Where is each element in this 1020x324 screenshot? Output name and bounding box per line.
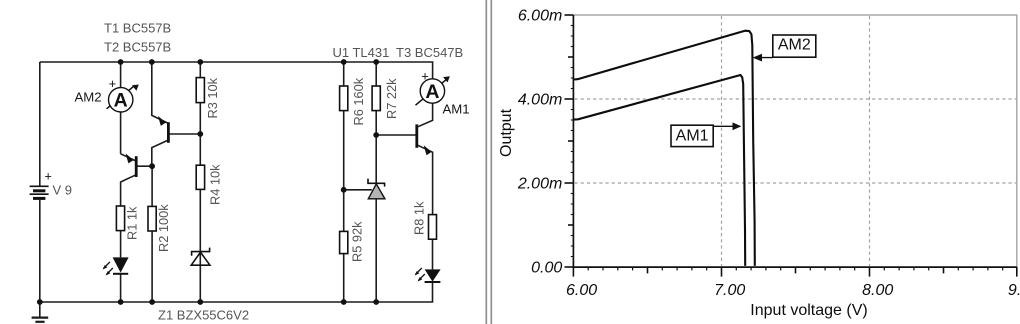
svg-text:Input voltage (V): Input voltage (V): [750, 302, 867, 319]
svg-text:+: +: [421, 69, 429, 84]
svg-text:9.00: 9.00: [1008, 282, 1020, 299]
svg-text:R7 22k: R7 22k: [384, 78, 399, 119]
svg-text:U1 TL431: U1 TL431: [333, 45, 390, 60]
svg-text:A: A: [425, 81, 439, 103]
svg-text:Output: Output: [498, 108, 515, 157]
svg-text:T1 BC557B: T1 BC557B: [104, 21, 171, 36]
svg-text:2.00m: 2.00m: [517, 176, 562, 193]
svg-text:R2 100k: R2 100k: [156, 204, 171, 252]
svg-text:+: +: [45, 169, 52, 183]
svg-text:V 9: V 9: [53, 183, 73, 198]
svg-text:4.00m: 4.00m: [518, 92, 562, 109]
svg-text:Z1 BZX55C6V2: Z1 BZX55C6V2: [158, 308, 249, 323]
svg-text:AM1: AM1: [443, 101, 470, 116]
svg-text:R1 1k: R1 1k: [125, 206, 140, 240]
svg-text:T2 BC557B: T2 BC557B: [104, 40, 171, 55]
svg-text:7.00: 7.00: [714, 282, 745, 299]
svg-text:AM2: AM2: [75, 89, 102, 104]
svg-text:AM1: AM1: [676, 127, 709, 144]
svg-text:R5 92k: R5 92k: [350, 221, 365, 262]
svg-text:T3 BC547B: T3 BC547B: [396, 45, 463, 60]
svg-text:R3 10k: R3 10k: [205, 77, 220, 118]
svg-text:R4 10k: R4 10k: [208, 164, 223, 205]
svg-text:6.00m: 6.00m: [518, 8, 562, 25]
svg-text:A: A: [114, 90, 128, 112]
svg-text:6.00: 6.00: [566, 282, 597, 299]
svg-text:8.00: 8.00: [862, 282, 893, 299]
svg-text:R8 1k: R8 1k: [412, 201, 427, 235]
svg-text:R6 160k: R6 160k: [351, 77, 366, 125]
svg-text:+: +: [109, 76, 117, 91]
svg-text:AM2: AM2: [778, 37, 811, 54]
svg-text:0.00: 0.00: [531, 260, 562, 277]
